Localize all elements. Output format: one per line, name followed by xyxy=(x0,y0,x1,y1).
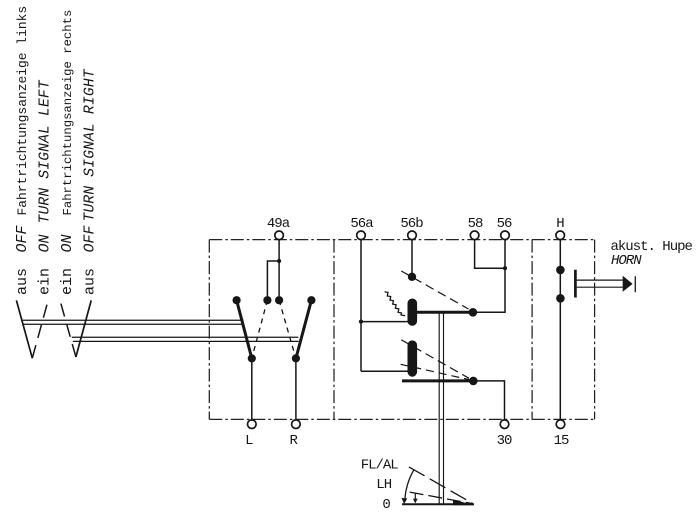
terminal 15 xyxy=(556,420,565,429)
lever shaft double line xyxy=(439,312,443,503)
contact dot mid-left xyxy=(263,296,271,304)
housing divider turn-switch/flasher xyxy=(333,240,335,420)
lever position baseline 0 xyxy=(402,503,474,505)
junction 49a branch xyxy=(277,259,281,263)
lever contact left xyxy=(237,300,252,358)
horn contact dot lower xyxy=(556,294,565,303)
spring zigzag xyxy=(385,292,405,316)
pivot dot left xyxy=(248,354,256,362)
svg-text:LH: LH xyxy=(376,477,391,493)
horn arrowhead xyxy=(623,276,633,292)
wire 56a to upper contact xyxy=(361,321,408,323)
moving contact arm lower xyxy=(402,379,473,382)
contact dot mid-right xyxy=(275,296,283,304)
svg-text:56a: 56a xyxy=(350,216,373,232)
housing border bottom edge xyxy=(209,418,594,420)
switch position symbol V2 dashed arm xyxy=(60,300,76,357)
small position arrowhead xyxy=(413,499,418,504)
housing border left edge xyxy=(208,240,210,420)
svg-text:ausOFFFahrtrichtungsanzeige li: ausOFFFahrtrichtungsanzeige links xyxy=(14,6,31,295)
terminal 56a xyxy=(357,231,366,240)
switch position symbol V2 solid right arm xyxy=(76,300,91,357)
mechanical link double line upper xyxy=(22,320,244,324)
svg-text:L: L xyxy=(245,433,253,449)
lever contact right xyxy=(296,300,312,358)
wire 56a to lower contact xyxy=(361,370,408,372)
lever tip wedge xyxy=(453,500,475,506)
switch position symbol V1 solid left arm xyxy=(16,300,32,358)
wire 56b down xyxy=(411,240,413,277)
svg-text:56b: 56b xyxy=(400,216,423,232)
flasher contact bar lower xyxy=(407,345,417,372)
contact dot left fixed xyxy=(233,296,241,304)
wire R xyxy=(295,358,297,419)
dashed alternate position left xyxy=(252,300,268,358)
svg-text:H: H xyxy=(556,216,564,232)
contact dot upper arm xyxy=(469,308,478,317)
horn push bar xyxy=(574,270,577,298)
terminal H xyxy=(556,231,565,240)
junction 58/56 xyxy=(503,266,507,270)
housing border right edge xyxy=(594,240,596,420)
svg-text:56: 56 xyxy=(497,216,512,232)
wire 58 xyxy=(475,240,505,269)
horn arrow stop tick xyxy=(634,276,636,292)
svg-text:15: 15 xyxy=(554,433,569,449)
flasher contact bar upper xyxy=(407,303,417,321)
contact dot lower arm xyxy=(469,377,478,386)
contact dot 56b xyxy=(408,273,416,281)
travel arc arrowhead xyxy=(402,498,408,504)
svg-text:30: 30 xyxy=(497,433,512,449)
horn contact dot upper xyxy=(556,266,565,275)
lever position dashed FL/AL xyxy=(409,467,473,504)
housing divider flasher/horn xyxy=(531,240,533,420)
pivot dot right xyxy=(292,354,300,362)
terminal R xyxy=(292,420,301,429)
svg-text:58: 58 xyxy=(468,216,483,232)
dashed alternate position right xyxy=(279,300,296,358)
terminal 30 xyxy=(500,420,509,429)
travel arc xyxy=(405,470,414,500)
terminal L xyxy=(248,420,257,429)
horn actuation double arrow shaft xyxy=(577,280,623,287)
terminal 56b xyxy=(408,231,417,240)
dashed flasher travel low xyxy=(401,364,469,379)
svg-text:HORN: HORN xyxy=(611,253,642,269)
lever position dashed LH xyxy=(410,492,473,504)
wire 49a branch left xyxy=(267,261,279,296)
terminal 56 xyxy=(501,231,510,240)
wire 49a down xyxy=(278,240,280,297)
moving contact arm upper xyxy=(412,311,473,314)
small position arrow xyxy=(414,493,416,500)
housing border top edge xyxy=(209,239,594,241)
svg-text:einONFahrtrichtungsanzeige rec: einONFahrtrichtungsanzeige rechts xyxy=(59,10,76,295)
mechanical link double line lower xyxy=(72,337,299,341)
wire 56a down xyxy=(360,240,362,372)
wire to terminal 30 xyxy=(473,381,504,420)
wire L xyxy=(251,358,253,419)
junction 56a xyxy=(359,320,363,324)
contact dot right fixed xyxy=(307,296,315,304)
wire H to 15 xyxy=(559,240,561,420)
dashed flasher travel upper xyxy=(401,271,468,309)
svg-text:0: 0 xyxy=(382,497,390,513)
wire from upper arm to 56 xyxy=(473,240,505,313)
terminal 49a xyxy=(275,231,284,240)
switch position symbol V1 dashed arm xyxy=(32,301,48,358)
svg-text:FL/AL: FL/AL xyxy=(361,458,399,474)
svg-text:49a: 49a xyxy=(267,216,290,232)
terminal 58 xyxy=(470,231,479,240)
dashed flasher travel mid xyxy=(401,340,469,379)
